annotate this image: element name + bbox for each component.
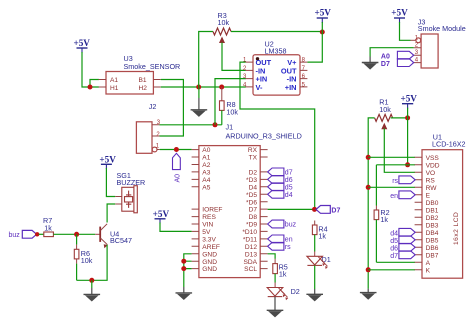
transistor U4 BC547 <box>95 224 132 249</box>
wire R1 left to gnd rail <box>368 118 374 289</box>
svg-text:DB5: DB5 <box>426 237 439 244</box>
net flag buz at J1.D9 <box>268 220 297 229</box>
svg-text:A0: A0 <box>381 53 390 60</box>
svg-text:DB6: DB6 <box>426 245 439 252</box>
net flag en at J1.D11 <box>268 235 293 244</box>
junction VDD <box>405 162 410 167</box>
wire VDD down to R2 <box>375 165 377 206</box>
svg-text:Smoke_SENSOR: Smoke_SENSOR <box>124 62 181 71</box>
svg-text:d4: d4 <box>285 192 293 199</box>
connector J2 <box>136 102 160 153</box>
svg-text:E: E <box>426 192 431 199</box>
svg-text:SCL: SCL <box>244 266 257 273</box>
wire D2 to ground <box>274 297 276 311</box>
svg-text:K: K <box>426 267 431 274</box>
wire U2.OUT down and across to D7 node <box>240 62 315 209</box>
svg-text:D7: D7 <box>249 207 258 214</box>
svg-text:+IN: +IN <box>285 83 297 92</box>
svg-text:5V: 5V <box>202 229 211 236</box>
ground under sensor <box>191 87 208 117</box>
+5V supply at buzzer <box>99 155 116 169</box>
svg-text:J2: J2 <box>149 102 157 111</box>
svg-text:RES: RES <box>202 214 216 221</box>
net flag d5 at LCD.DB5 <box>390 236 415 245</box>
svg-text:GND: GND <box>202 259 217 266</box>
net flag d4 at J1.D5 <box>268 190 293 199</box>
lcd module U1 <box>415 132 466 278</box>
+5V supply at J3 <box>391 8 408 23</box>
svg-text:10k: 10k <box>81 256 93 265</box>
svg-text:10k: 10k <box>379 105 391 114</box>
net flag A0 at J3.3 <box>381 51 414 60</box>
svg-text:J1: J1 <box>226 122 234 131</box>
svg-text:*D10: *D10 <box>242 229 257 236</box>
ground under J1 <box>176 287 193 300</box>
wire +5V to U3.H1 <box>82 52 99 87</box>
wire R7 to base <box>53 233 95 235</box>
svg-text:d5: d5 <box>285 184 293 191</box>
net flag d5 at J1.D4 <box>268 183 293 192</box>
ground under D1 <box>306 289 323 301</box>
LED D1 <box>307 255 331 269</box>
potentiometer R1 <box>375 98 393 130</box>
wire +5V to J1.5V <box>160 223 192 232</box>
svg-text:+5V: +5V <box>391 8 408 18</box>
svg-text:SDA: SDA <box>243 259 257 266</box>
wire J3.2 to ground <box>370 48 414 57</box>
svg-text:RX: RX <box>248 147 258 154</box>
ground at right rail <box>360 289 377 300</box>
potentiometer R3 <box>213 11 231 43</box>
svg-text:DB2: DB2 <box>426 215 439 222</box>
wire VSS <box>368 156 415 158</box>
svg-text:1k: 1k <box>380 215 388 224</box>
svg-text:DB4: DB4 <box>426 230 439 237</box>
wire VDD row <box>376 164 415 166</box>
wire R3 left leg <box>199 32 213 88</box>
svg-text:A3: A3 <box>202 170 210 177</box>
svg-text:+5V: +5V <box>153 209 170 219</box>
wire K <box>368 269 415 271</box>
svg-text:VSS: VSS <box>426 155 440 162</box>
wire RW <box>368 186 415 188</box>
svg-text:10k: 10k <box>226 107 238 116</box>
svg-text:LCD-16X2: LCD-16X2 <box>432 139 466 148</box>
junction A0 flag <box>174 147 179 152</box>
resistor R8 <box>220 87 239 125</box>
wire emitter to bottom <box>77 245 108 281</box>
net flag d7 at J1.D2 <box>268 168 293 177</box>
svg-text:VDD: VDD <box>426 162 440 169</box>
svg-text:Smoke Module: Smoke Module <box>418 24 466 33</box>
resistor R6 <box>74 234 92 280</box>
resistor R4 <box>312 221 327 257</box>
svg-text:en: en <box>390 193 398 200</box>
svg-text:d6: d6 <box>285 177 293 184</box>
svg-text:D4: D4 <box>249 184 258 191</box>
svg-text:DB1: DB1 <box>426 207 439 214</box>
wire R1 wiper to VO <box>384 129 415 173</box>
svg-text:AREF: AREF <box>202 244 220 251</box>
svg-text:1k: 1k <box>318 232 326 241</box>
svg-text:DB7: DB7 <box>426 252 439 259</box>
junction emitter gnd <box>89 278 94 283</box>
svg-text:DB3: DB3 <box>426 222 439 229</box>
net flag rs at LCD.RS <box>392 176 415 185</box>
svg-text:VO: VO <box>426 170 436 177</box>
net flag rs at J1.D12 <box>268 242 292 251</box>
+5V supply at R1 <box>400 94 417 109</box>
wire signal to U2.+IN <box>215 79 246 125</box>
wire J2.1 to J1.A0 <box>160 149 192 151</box>
ground at J3 <box>362 57 379 70</box>
svg-text:H1: H1 <box>110 85 119 92</box>
junction rail K <box>366 267 371 272</box>
smoke sensor U3 <box>99 54 181 94</box>
svg-text:BC547: BC547 <box>110 236 132 245</box>
wire up to U3.A1 <box>90 80 99 88</box>
+5V supply at J1 5V pin <box>153 209 170 224</box>
svg-text:GND: GND <box>202 251 217 258</box>
wire +5V to buzzer pin1 <box>106 168 115 197</box>
svg-text:V-: V- <box>256 83 264 92</box>
svg-text:BUZZER: BUZZER <box>117 178 146 187</box>
svg-text:D7: D7 <box>331 208 340 215</box>
junction sensor signal node <box>213 122 218 127</box>
wire D1 to ground <box>314 265 316 289</box>
junction base R6 tap <box>74 232 79 237</box>
svg-text:A4: A4 <box>202 177 210 184</box>
svg-text:d7: d7 <box>285 170 293 177</box>
svg-text:A: A <box>426 260 431 267</box>
wire J1.D7 to node <box>268 208 313 210</box>
svg-text:en: en <box>285 237 293 244</box>
wire buzzer pin2 to collector <box>107 204 115 223</box>
wire R1 right to +5V <box>391 117 408 119</box>
op-amp U2 LM358 <box>243 40 307 96</box>
wire U3.H2 to U2.V- gnd rail <box>161 86 246 88</box>
junction GND3 <box>181 266 186 271</box>
connector J3 <box>414 17 466 68</box>
junction R8 top <box>219 85 224 90</box>
net flag d7 at LCD.DB7 <box>390 251 415 260</box>
junction GND2 <box>181 259 186 264</box>
svg-text:A0: A0 <box>202 147 210 154</box>
svg-text:A5: A5 <box>202 184 210 191</box>
svg-text:D8: D8 <box>249 214 258 221</box>
svg-text:+5V: +5V <box>99 155 116 165</box>
ground under transistor <box>84 280 101 301</box>
svg-text:RW: RW <box>426 185 438 192</box>
junction at U3 left <box>88 85 93 90</box>
svg-text:16x2 LCD: 16x2 LCD <box>453 212 460 245</box>
junction rail RW <box>366 185 371 190</box>
svg-text:D13: D13 <box>245 251 257 258</box>
svg-text:*D3: *D3 <box>246 177 257 184</box>
svg-text:+5V: +5V <box>73 38 90 48</box>
+5V supply top center <box>314 8 331 23</box>
wire R3 right to +5V <box>231 31 322 33</box>
svg-text:1k: 1k <box>44 223 52 232</box>
svg-text:D12: D12 <box>245 244 257 251</box>
ground under D2 <box>267 310 284 317</box>
svg-text:B1: B1 <box>139 77 147 84</box>
svg-text:VIN: VIN <box>202 222 213 229</box>
net flag d6 at LCD.DB6 <box>390 243 415 252</box>
svg-text:DB0: DB0 <box>426 200 439 207</box>
svg-text:ARDUINO_R3_SHIELD: ARDUINO_R3_SHIELD <box>226 132 302 141</box>
wire R2 to LCD.A <box>376 261 415 263</box>
wire R3 wiper to U2.-IN <box>222 43 246 71</box>
svg-text:rs: rs <box>392 178 398 185</box>
net flag d6 at J1.D3 <box>268 176 293 185</box>
svg-text:A2: A2 <box>202 162 210 169</box>
svg-text:*D6: *D6 <box>246 199 257 206</box>
resistor R2 <box>374 206 390 263</box>
svg-text:10k: 10k <box>218 18 230 27</box>
junction rail VSS <box>366 155 371 160</box>
svg-text:*D11: *D11 <box>243 237 258 244</box>
net flag A0 (vertical) <box>173 153 182 182</box>
svg-text:buz: buz <box>9 232 21 239</box>
net flag D7 <box>316 206 340 215</box>
wire U3.B1 to J2.2 <box>159 80 183 137</box>
svg-text:rs: rs <box>285 244 291 251</box>
resistor R5 <box>273 259 288 288</box>
svg-text:RS: RS <box>426 177 436 184</box>
wire J1 GND pins to ground <box>184 254 192 287</box>
svg-text:H2: H2 <box>139 85 148 92</box>
svg-text:A0: A0 <box>175 174 182 183</box>
svg-text:D2: D2 <box>291 287 300 296</box>
svg-text:A1: A1 <box>202 155 210 162</box>
svg-text:*D5: *D5 <box>246 192 257 199</box>
net flag D7 at J3.4 <box>381 59 414 68</box>
wire +5V down to VDD <box>407 108 409 165</box>
LED D2 <box>267 287 300 301</box>
svg-text:+5V: +5V <box>400 94 417 104</box>
svg-text:GND: GND <box>202 266 217 273</box>
arduino shield J1 <box>192 122 302 277</box>
net flag en at LCD.E <box>390 191 415 200</box>
+5V supply near U3 <box>73 38 90 53</box>
wire J1.D13 to R5 <box>268 254 276 259</box>
svg-text:A1: A1 <box>110 77 118 84</box>
junction gnd rail at ground <box>196 85 201 90</box>
junction R1 +5V <box>405 115 410 120</box>
junction D7 node <box>312 207 317 212</box>
svg-text:*D9: *D9 <box>246 222 257 229</box>
junction at +5V top <box>320 30 325 35</box>
svg-text:IOREF: IOREF <box>202 207 222 214</box>
buzzer SG1 <box>115 171 145 213</box>
wire +5V down to U2.V+ <box>307 22 322 62</box>
svg-text:+5V: +5V <box>314 8 331 18</box>
svg-text:buz: buz <box>285 222 297 229</box>
svg-text:d6: d6 <box>390 246 398 253</box>
svg-text:D2: D2 <box>249 170 258 177</box>
svg-text:D7: D7 <box>381 61 390 68</box>
svg-text:d4: d4 <box>390 231 398 238</box>
wire J2.3 to R8 bottom <box>159 124 221 126</box>
wire +5V to J3.1 <box>400 22 411 40</box>
svg-text:TX: TX <box>249 155 258 162</box>
resistor R7 <box>39 216 54 236</box>
svg-text:1k: 1k <box>279 269 287 278</box>
net flag buz (left) <box>9 230 40 239</box>
svg-text:d7: d7 <box>390 253 398 260</box>
net flag d4 at LCD.DB4 <box>390 228 415 237</box>
svg-text:3.3V: 3.3V <box>202 237 216 244</box>
svg-text:d5: d5 <box>390 238 398 245</box>
